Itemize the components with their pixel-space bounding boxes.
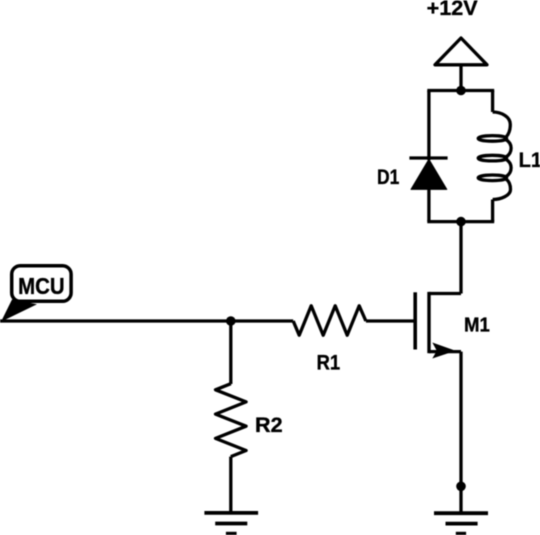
svg-text:MCU: MCU xyxy=(18,273,65,299)
svg-text:+12V: +12V xyxy=(427,0,479,20)
svg-text:R2: R2 xyxy=(255,414,283,437)
svg-text:M1: M1 xyxy=(464,314,490,337)
svg-text:D1: D1 xyxy=(377,165,399,189)
svg-text:R1: R1 xyxy=(317,350,341,374)
svg-text:L1: L1 xyxy=(519,148,540,172)
